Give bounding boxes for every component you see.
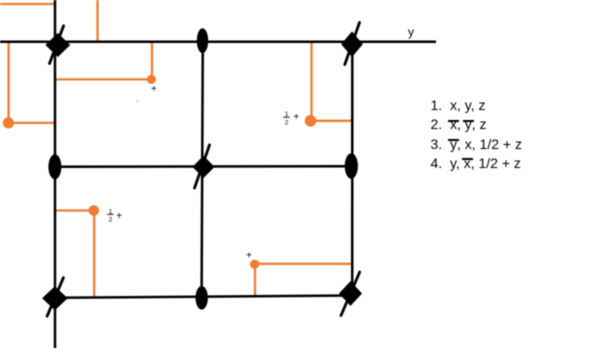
svg-text:+: + (293, 112, 299, 123)
svg-text:+: + (246, 251, 252, 262)
svg-text:2: 2 (285, 119, 289, 126)
svg-text:y: y (408, 25, 414, 39)
svg-text:2: 2 (109, 217, 113, 224)
svg-text:+: + (151, 84, 157, 95)
svg-text:+: + (116, 211, 122, 222)
